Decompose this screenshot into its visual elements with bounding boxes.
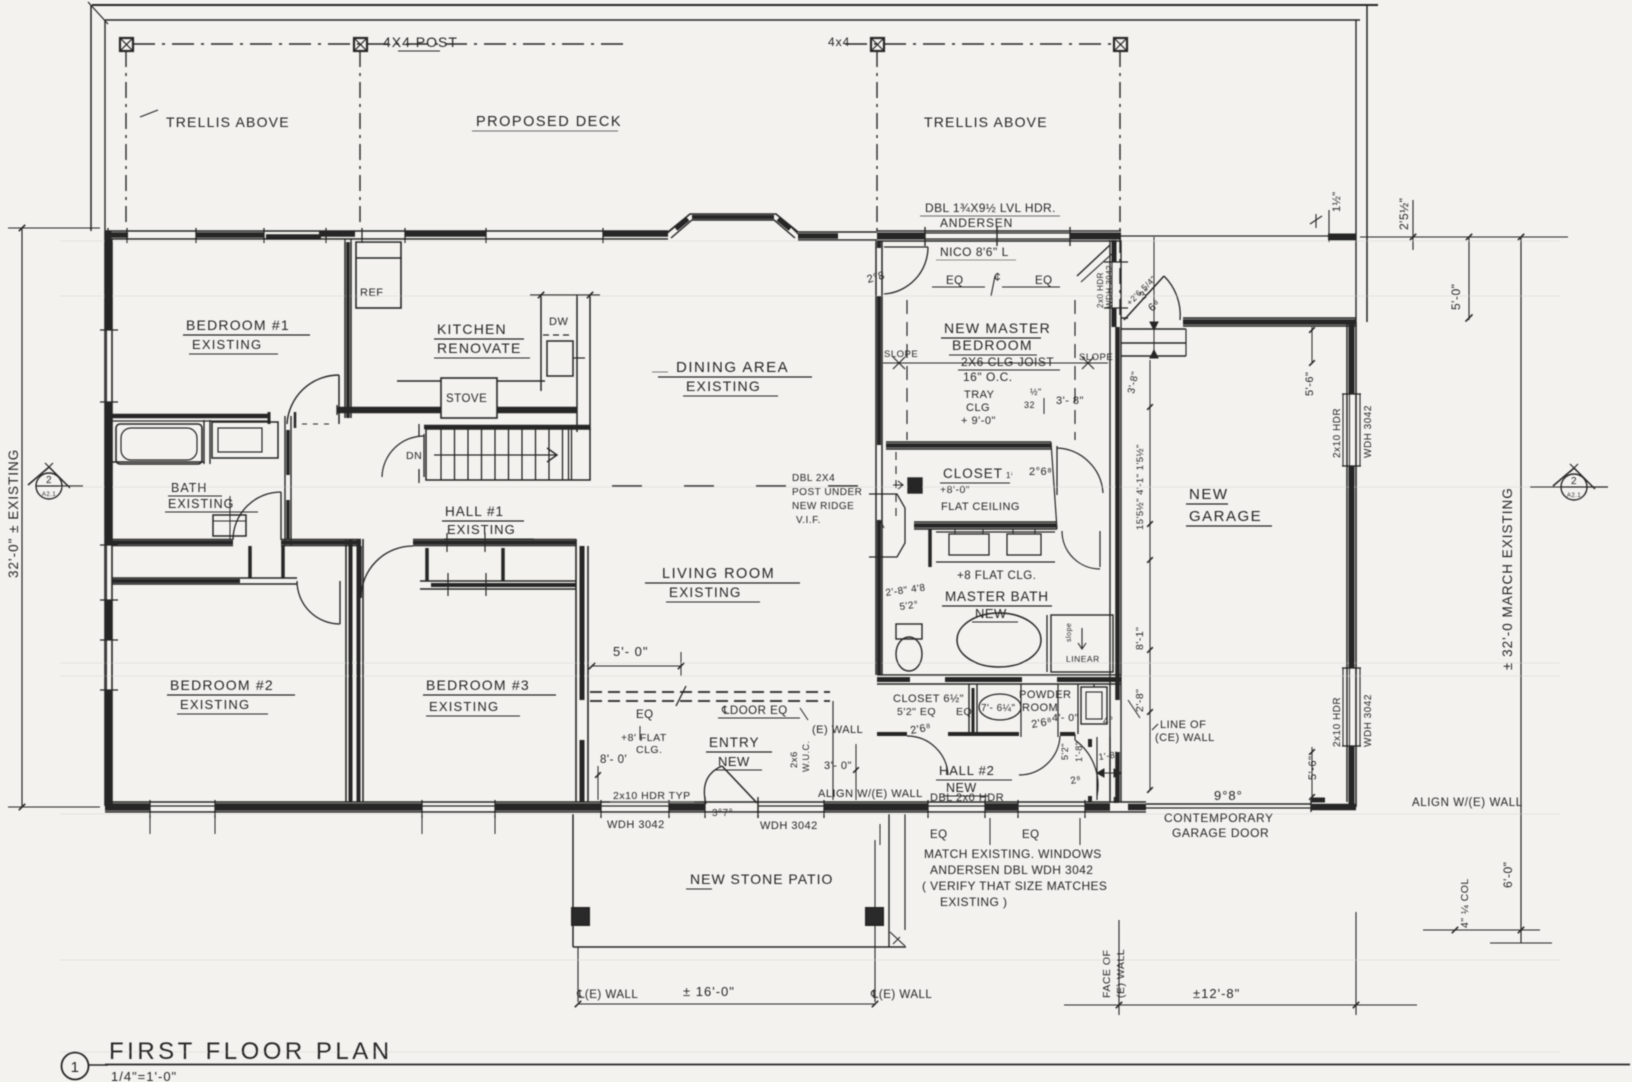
closet north wall [886,441,1051,443]
svg-text:± 32'-0 MARCH EXISTING: ± 32'-0 MARCH EXISTING [1500,487,1515,670]
master bedroom north wall [877,230,1121,232]
trellis post line D [1119,51,1121,318]
kitchen counter + stove [397,380,441,382]
svg-text:1'-8": 1'-8" [1074,742,1084,762]
svg-text:PROPOSED DECK: PROPOSED DECK [476,114,622,130]
svg-text:+8'-0": +8'-0" [940,484,970,496]
master bedroom door [884,247,928,294]
svg-text:MATCH EXISTING. WINDOWS: MATCH EXISTING. WINDOWS [924,847,1102,861]
svg-text:+8' FLAT: +8' FLAT [621,732,667,744]
svg-text:A2.1: A2.1 [42,492,57,498]
closet stubs between hall and bedroom2 [248,546,252,578]
bottom dim 16-0 [577,947,579,1002]
bedroom3 door arc [360,546,362,598]
svg-text:1ⁱ: 1ⁱ [1006,471,1013,480]
svg-text:9°8°: 9°8° [1214,788,1243,803]
powder toilet [979,694,1021,720]
svg-text:5'2" EQ: 5'2" EQ [897,706,936,718]
DW peninsula [540,295,542,391]
line of CE wall leader [1128,700,1140,718]
svg-text:ALIGN W/(E) WALL: ALIGN W/(E) WALL [1412,797,1523,809]
window dim extension [214,818,216,834]
house bottom wall (south) [105,801,1110,803]
master east window [1111,262,1113,308]
svg-text:EXISTING ): EXISTING ) [940,895,1007,909]
bedroom1 door arc [338,375,340,424]
svg-text:FACE OF: FACE OF [1101,950,1113,998]
bath toilet [213,515,246,536]
garage door line [1146,803,1311,805]
svg-text:EQ: EQ [946,275,964,287]
kitchen south wall w [337,407,441,414]
section marker right 2/A2.1 [1561,474,1587,500]
svg-text:EXISTING: EXISTING [192,337,262,352]
window dim extension [421,818,423,834]
svg-text:EXISTING: EXISTING [168,497,234,511]
svg-text:WDH 3042: WDH 3042 [760,820,818,832]
svg-text:CONTEMPORARY: CONTEMPORARY [1164,811,1274,825]
svg-text:DN: DN [406,450,422,462]
svg-text:DBL 1¾X9½ LVL HDR.: DBL 1¾X9½ LVL HDR. [925,201,1056,215]
bedroom3 closet [420,580,576,582]
trellis post line C [876,51,878,232]
svg-text:2x10 HDR: 2x10 HDR [1332,697,1343,747]
svg-text:2: 2 [1571,476,1577,487]
svg-text:EXISTING: EXISTING [669,585,742,600]
svg-text:LINE OF: LINE OF [1160,719,1206,731]
svg-text:32: 32 [1024,400,1035,410]
right dim horizontal at y237 [1360,236,1568,238]
svg-text:1/4"=1'-0": 1/4"=1'-0" [111,1069,177,1082]
svg-text:EQ: EQ [1022,829,1040,841]
entry jamb tick b [757,797,759,818]
title circle 1 [62,1053,89,1080]
hall2 south walls [877,732,907,736]
stairs [424,425,590,430]
wall segment north [798,233,838,239]
svg-text:2: 2 [46,475,52,486]
svg-text:NICO 8'6" L: NICO 8'6" L [940,245,1009,259]
svg-text:EQ: EQ [1035,275,1053,287]
svg-text:EQ: EQ [930,829,948,841]
powder east partition [1077,684,1079,734]
svg-text:℄DOOR EQ: ℄DOOR EQ [721,705,788,717]
closet rod dashed [895,452,897,520]
svg-text:5'2": 5'2" [1060,743,1070,760]
svg-text:4°: 4° [1103,716,1114,727]
patio post left [572,908,589,925]
svg-text:8'- 0': 8'- 0' [600,754,627,766]
corner overshoot [88,2,108,24]
svg-text:CLOSET 6½": CLOSET 6½" [893,693,964,705]
master corner chamfer [1077,245,1110,276]
wall block at deck SE [1328,234,1356,241]
bath walls [112,414,268,419]
bedroom divider wall [345,539,347,802]
house left wall (west) [104,231,106,806]
wall segment south [1085,803,1110,811]
svg-text:2X6 CLG JOIST: 2X6 CLG JOIST [961,355,1054,369]
trellis post line A [125,51,127,228]
svg-text:BEDROOM #3: BEDROOM #3 [426,677,530,693]
svg-text:15'5½" 4'-1" 1'5½": 15'5½" 4'-1" 1'5½" [1135,444,1146,530]
svg-text:(CE) WALL: (CE) WALL [1155,732,1215,744]
kitchen west wall [344,239,346,418]
svg-text:(E) WALL: (E) WALL [1115,949,1127,998]
4x4 post C [871,38,884,51]
garage east wall [1346,322,1348,802]
svg-text:EQ: EQ [956,706,972,718]
svg-text:5'-6": 5'-6" [1304,372,1316,396]
bath door arc [280,492,282,540]
svg-text:2x6: 2x6 [789,751,800,768]
svg-text:NEW: NEW [946,781,977,795]
svg-text:ENTRY: ENTRY [709,735,760,750]
wall segment south [985,803,1018,811]
svg-text:4" ¼ COL: 4" ¼ COL [1459,878,1471,928]
svg-text:DBL 2X4: DBL 2X4 [792,473,835,484]
deck left edge inner [104,20,106,231]
svg-text:DW: DW [549,316,568,328]
svg-text:CLOSET: CLOSET [943,466,1003,481]
svg-text:REF: REF [360,287,384,299]
svg-text:(E) WALL: (E) WALL [812,724,863,736]
vanity [926,528,936,530]
svg-text:CLG: CLG [966,402,990,414]
bedroom2 west window a [106,545,108,600]
svg-text:2'5½": 2'5½" [1397,198,1411,230]
svg-text:SLOPE: SLOPE [884,349,918,360]
bath vanity [212,422,278,458]
svg-text:EQ: EQ [636,709,654,721]
svg-text:W.U.C.: W.U.C. [801,741,811,773]
svg-text:NEW MASTER: NEW MASTER [944,320,1051,336]
deck left edge outer [90,5,92,231]
svg-text:slope: slope [1066,623,1073,642]
svg-text:4x4: 4x4 [828,35,850,49]
svg-text:LINEAR: LINEAR [1066,654,1100,664]
house top wall (north) [105,230,668,232]
trellis post line B [359,51,361,228]
garage south: door opening [1110,801,1146,803]
closet door arc [1056,446,1058,495]
svg-text:1: 1 [71,1059,80,1076]
svg-text:HALL #1: HALL #1 [445,504,504,519]
garage west wall [1112,240,1117,262]
deck right edge outer [1366,5,1368,322]
svg-text:2x0 HDR: 2x0 HDR [1096,272,1105,308]
entry door leaf + arc [722,766,757,803]
svg-text:5'-0": 5'-0" [1449,284,1463,310]
sheet bottom rule [105,1064,1630,1066]
svg-text:3°7°: 3°7° [712,808,733,819]
svg-text:FLAT CEILING: FLAT CEILING [941,501,1020,513]
svg-text:½": ½" [1030,387,1042,397]
hall2 east chase [1096,737,1098,800]
garage north wall [1121,317,1128,319]
svg-text:WDH 3042: WDH 3042 [607,819,665,831]
mb shower [1046,615,1048,672]
mb south wall [877,674,1121,676]
hall2 door arcs [907,736,948,775]
svg-text:3'- 8": 3'- 8" [1056,395,1084,407]
window dim extension [149,818,151,834]
svg-text:℄(E) WALL: ℄(E) WALL [870,989,932,1001]
svg-text:TRELLIS ABOVE: TRELLIS ABOVE [924,114,1048,130]
4x4 post A [120,38,133,51]
refrigerator [356,242,401,308]
svg-text:2'-8": 2'-8" [1134,689,1146,712]
dashed ridge line + post [612,485,877,487]
svg-text:( VERIFY THAT SIZE MATCHES: ( VERIFY THAT SIZE MATCHES [922,879,1107,893]
steps garage to hall [1121,328,1186,330]
svg-text:KITCHEN: KITCHEN [437,321,507,337]
svg-text:SLOPE: SLOPE [1079,352,1113,363]
svg-text:FIRST FLOOR PLAN: FIRST FLOOR PLAN [109,1038,393,1065]
svg-text:WDH 3042: WDH 3042 [1363,405,1374,458]
svg-text:7'- 6¼": 7'- 6¼" [981,702,1016,714]
right dim verticals [1468,237,1470,320]
garage entry door arc [1124,276,1164,320]
patio post right [866,908,883,925]
bathtub [116,424,202,464]
svg-text:2⁸: 2⁸ [1070,774,1083,787]
garage dim string rotated [1149,360,1151,790]
svg-text:EXISTING: EXISTING [447,522,516,537]
entry jamb tick a [704,797,706,818]
svg-text:8'-1": 8'-1" [1134,627,1146,650]
bay window (dining) [668,214,798,232]
svg-text:32'-0" ± EXISTING: 32'-0" ± EXISTING [6,449,21,578]
wall segment north [196,232,264,238]
svg-text:WDH 3042: WDH 3042 [1105,265,1114,308]
svg-text:POWDER: POWDER [1019,689,1072,701]
garage east window 2 [1349,668,1351,746]
dim line 16-0 [578,1003,875,1005]
trellis dash-dot lines [133,43,630,45]
closet south door arc [1099,531,1101,567]
left dimension line 32ft existing [21,228,23,807]
svg-text:BEDROOM #1: BEDROOM #1 [186,317,290,333]
wall segment south [669,803,705,811]
svg-text:ANDERSEN DBL WDH 3042: ANDERSEN DBL WDH 3042 [930,863,1093,877]
svg-text:±12'-8": ±12'-8" [1193,986,1240,1001]
svg-text:NEW RIDGE: NEW RIDGE [792,501,854,512]
svg-text:+ 9'-0": + 9'-0" [961,415,996,427]
powder sink [1081,687,1107,724]
svg-text:EXISTING: EXISTING [429,699,499,714]
svg-text:2x10 HDR: 2x10 HDR [1332,408,1343,458]
svg-text:EXISTING: EXISTING [180,697,250,712]
svg-text:TRELLIS ABOVE: TRELLIS ABOVE [166,114,290,130]
wall segment south [824,803,928,811]
deck top edge [105,19,1360,21]
entry (E) wall dashed [590,691,830,693]
patio outline [572,814,574,947]
wall segment north [266,234,321,240]
stair closet door arc [423,434,425,477]
4x4 post D [1114,38,1127,51]
master/dining wall [875,241,877,675]
svg-text:CLG.: CLG. [636,744,663,756]
svg-text:2x10 HDR TYP: 2x10 HDR TYP [613,790,691,802]
wall segment south [215,803,422,811]
svg-text:DINING AREA: DINING AREA [676,359,789,376]
svg-text:BATH: BATH [171,481,207,495]
trellis above label left [140,110,158,117]
wall segment north [105,232,128,238]
svg-text:NEW STONE PATIO: NEW STONE PATIO [690,871,833,887]
right main dim line 32-0 march existing [1520,237,1522,943]
linen chamfer [869,494,905,557]
svg-text:℄(E) WALL: ℄(E) WALL [576,989,638,1001]
dim line thru steps [1153,237,1155,356]
svg-text:5'-6": 5'-6" [1307,756,1319,780]
svg-text:MASTER BATH: MASTER BATH [945,589,1049,604]
svg-text:4'- 0": 4'- 0" [1052,712,1079,724]
svg-text:HALL #2: HALL #2 [939,763,995,778]
svg-text:+8 FLAT CLG.: +8 FLAT CLG. [957,570,1036,582]
stove box [441,378,497,418]
deck south edge over garage [1121,235,1356,237]
svg-text:16" O.C.: 16" O.C. [963,370,1013,384]
svg-text:2°6⁸: 2°6⁸ [1029,466,1052,478]
wall segment north [319,231,355,237]
bottom dim 12-8 [1064,1004,1417,1006]
sheet border top [92,4,1378,6]
section marker left 2/A2.1 [36,473,62,499]
svg-text:4X4 POST: 4X4 POST [383,34,458,50]
svg-text:NEW: NEW [1189,486,1229,503]
closet south wall [914,521,1057,523]
svg-text:5'- 0": 5'- 0" [613,644,649,659]
svg-text:± 16'-0": ± 16'-0" [683,984,735,999]
4x4 post B [354,38,367,51]
svg-text:V.I.F.: V.I.F. [796,515,821,526]
kitchen south wall e [497,407,577,414]
svg-text:POST UNDER: POST UNDER [792,487,862,498]
bedroom3 east wall [575,539,577,802]
svg-text:RENOVATE: RENOVATE [437,340,522,356]
svg-text:ANDERSEN: ANDERSEN [940,216,1013,230]
svg-text:BEDROOM: BEDROOM [952,337,1033,353]
svg-text:BEDROOM #2: BEDROOM #2 [170,677,274,693]
bedroom2 west window b [106,640,108,690]
svg-text:ALIGN W/(E) WALL: ALIGN W/(E) WALL [818,788,923,800]
wall segment south [495,803,601,811]
svg-text:1½": 1½" [1331,191,1343,212]
svg-text:A2.1: A2.1 [1567,493,1582,499]
wall segment south [105,803,150,811]
wall segment north [405,231,486,237]
tray ceiling dashed [906,300,908,440]
hall1 south wall [112,539,233,541]
svg-text:GARAGE: GARAGE [1189,508,1262,525]
svg-text:TRAY: TRAY [964,389,995,401]
svg-text:EXISTING: EXISTING [686,378,761,394]
svg-text:WDH 3042: WDH 3042 [1363,694,1374,747]
svg-text:GARAGE DOOR: GARAGE DOOR [1172,826,1269,840]
svg-text:STOVE: STOVE [446,393,487,405]
deck right edge inner [1355,20,1357,322]
bedroom2 door arc [339,581,341,624]
window dim extension [494,818,496,834]
svg-text:LIVING ROOM: LIVING ROOM [662,566,775,582]
bedroom2 north wall [112,577,297,579]
garage east window 1 [1349,394,1351,466]
bedroom1 west window [106,330,108,402]
mb toilet [896,624,922,639]
clg joist dim line [883,362,1108,364]
svg-text:3'- 0": 3'- 0" [824,760,852,772]
mb tub [957,613,1041,667]
svg-text:6'-0": 6'-0" [1501,862,1515,888]
wall segment north [603,231,668,237]
